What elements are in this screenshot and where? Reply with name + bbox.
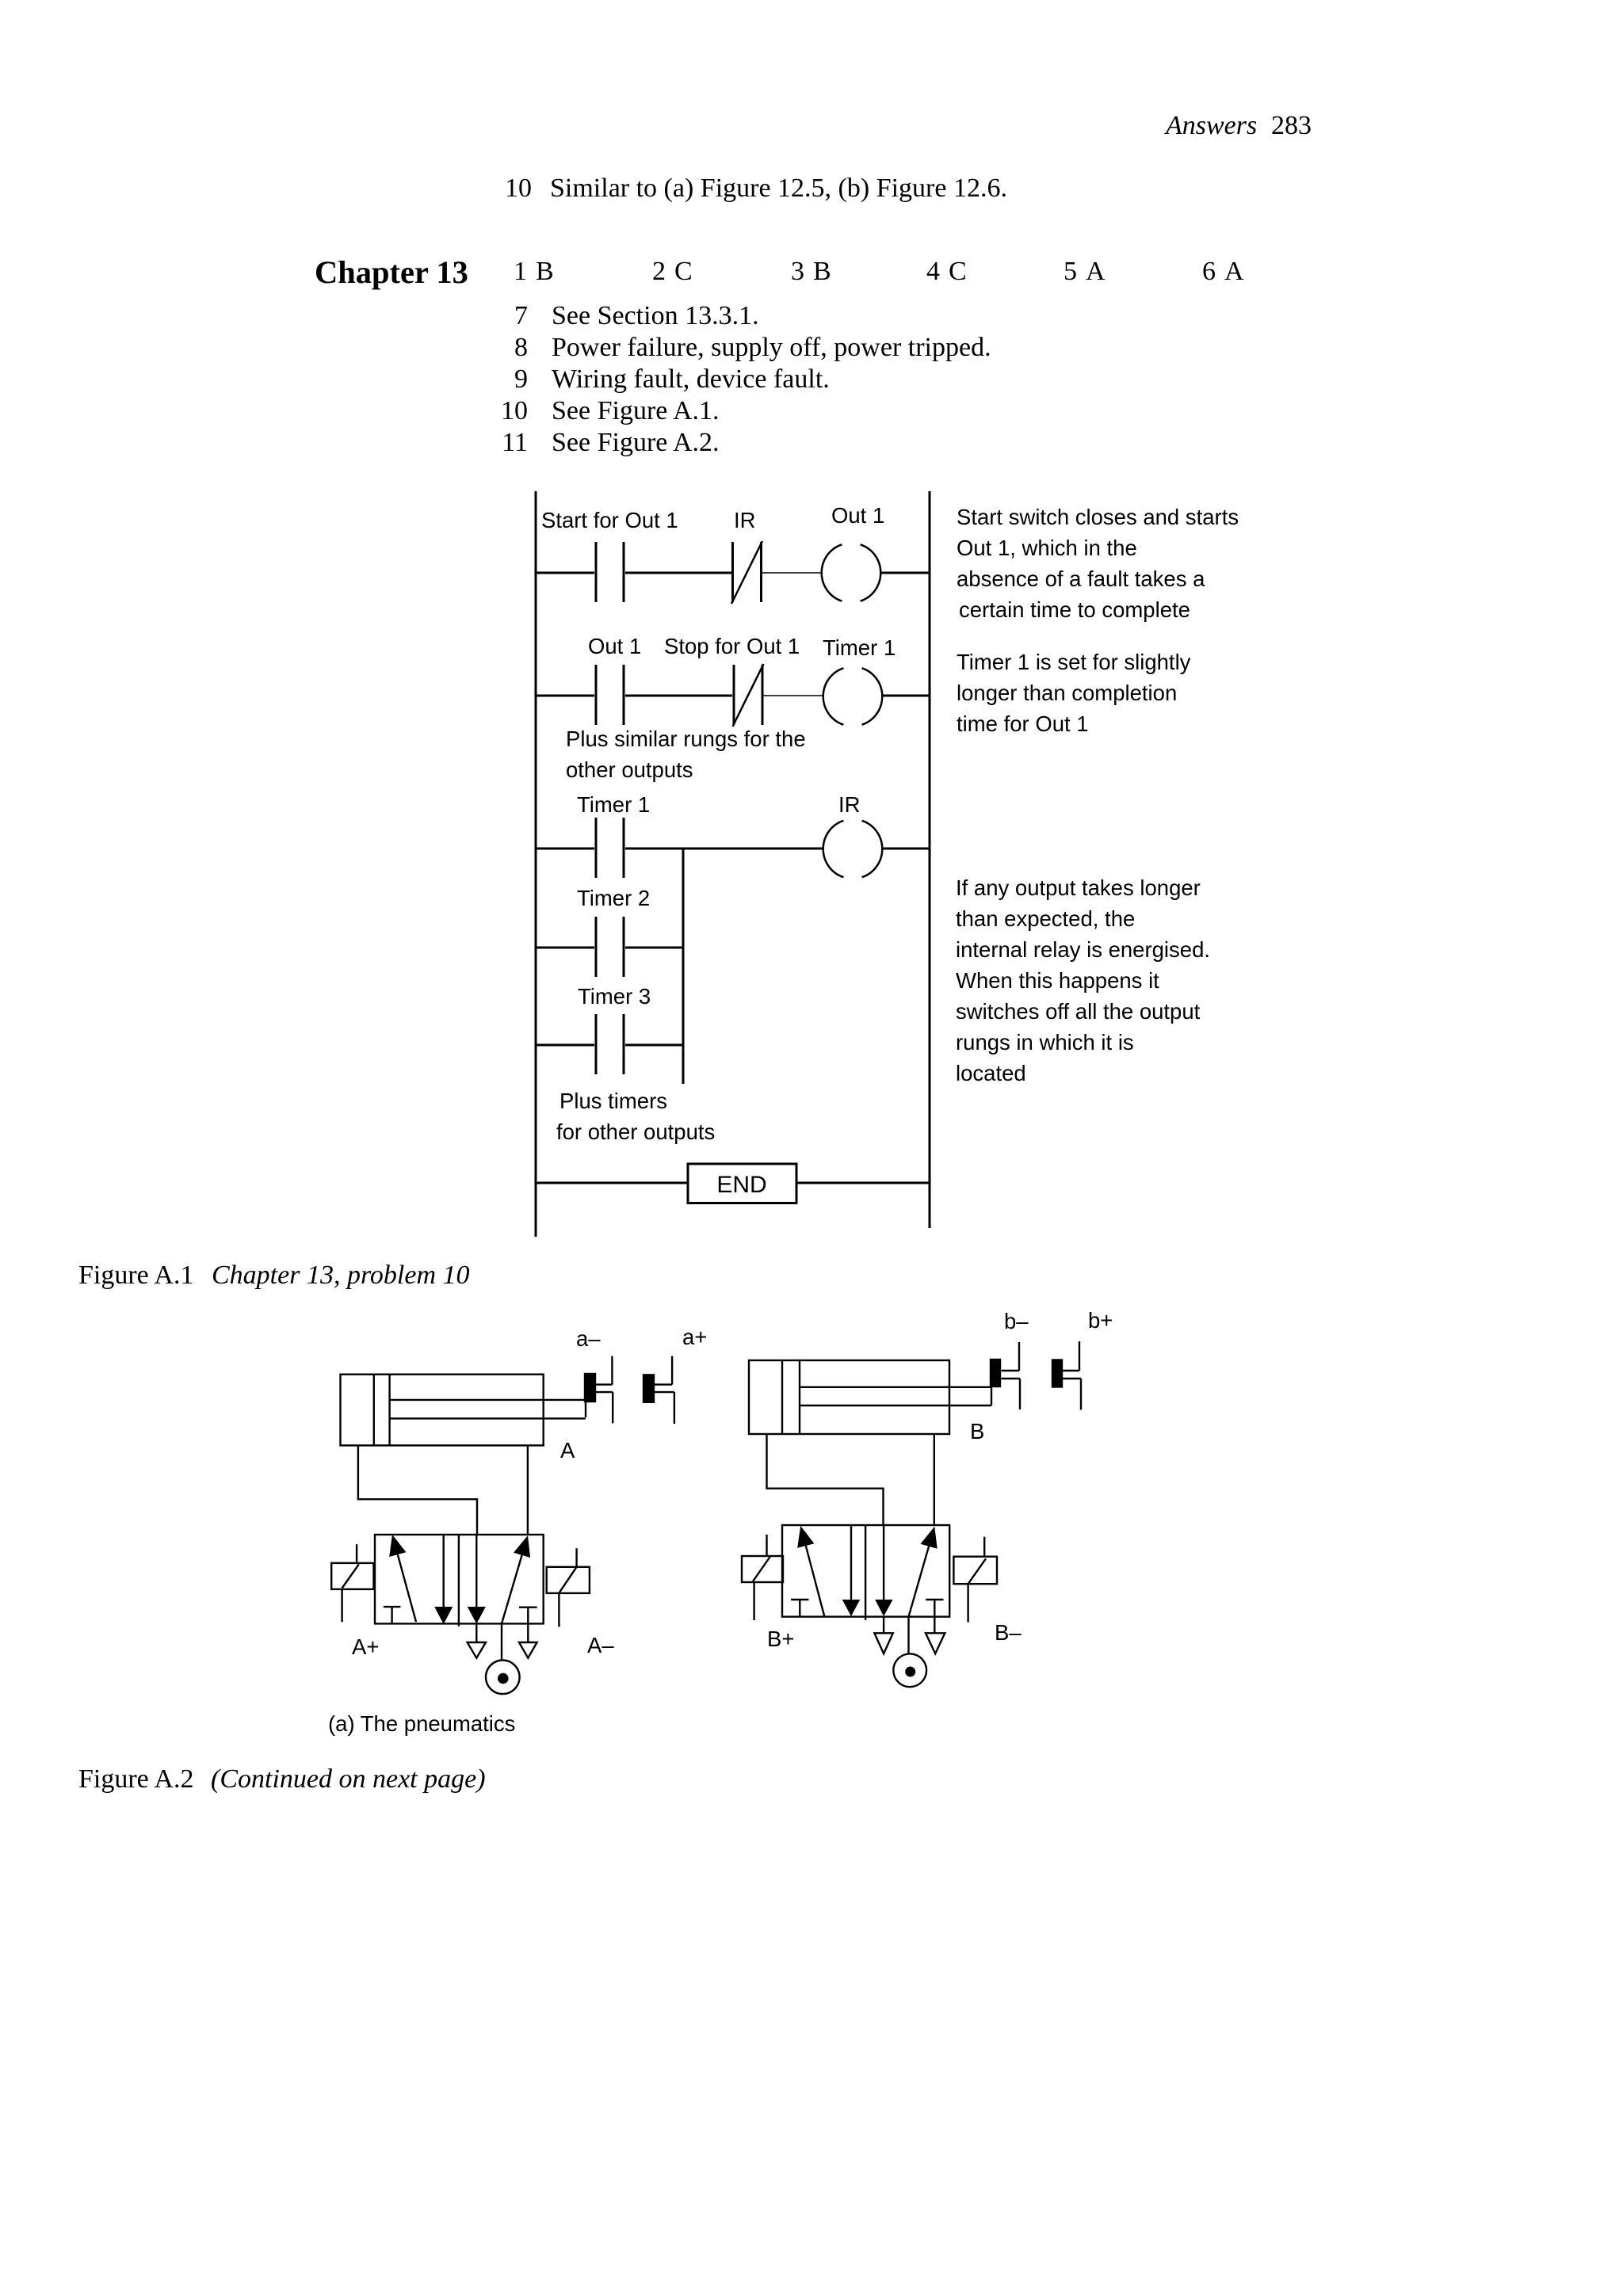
svg-text:time for Out 1: time for Out 1 xyxy=(957,711,1089,736)
rung 1 wire mid xyxy=(625,572,731,574)
contact Timer 2 xyxy=(596,917,624,977)
svg-text:Stop for Out 1: Stop for Out 1 xyxy=(664,634,800,658)
right rail xyxy=(929,491,931,1228)
valve B left diagonal arrow xyxy=(797,1526,824,1617)
svg-text:A: A xyxy=(560,1438,575,1463)
ladder labels xyxy=(541,503,896,1198)
svg-text:Start switch closes and starts: Start switch closes and starts xyxy=(957,505,1239,529)
svg-text:10: 10 xyxy=(501,396,528,425)
branch vertical xyxy=(682,849,685,1084)
svg-text:b+: b+ xyxy=(1088,1308,1113,1333)
contact Timer 1 xyxy=(596,818,624,878)
valve B flow line 2 with exhaust xyxy=(874,1525,892,1653)
wire cylinder A left port to valve xyxy=(358,1445,477,1535)
svg-text:(Continued on next page): (Continued on next page) xyxy=(211,1764,486,1794)
rung 5 wire left xyxy=(536,1044,594,1047)
svg-text:Power failure, supply off, pow: Power failure, supply off, power tripped… xyxy=(552,333,991,362)
cylinder A body xyxy=(341,1375,544,1446)
items 7-11 xyxy=(501,301,991,457)
rung 3 wire left xyxy=(536,848,594,850)
valve A body xyxy=(375,1535,544,1623)
svg-text:END: END xyxy=(716,1172,766,1198)
left rail xyxy=(535,491,537,1237)
svg-text:283: 283 xyxy=(1271,111,1312,140)
valve A flow line 2 with exhaust xyxy=(468,1535,486,1658)
svg-text:(a) The pneumatics: (a) The pneumatics xyxy=(328,1711,515,1736)
Figure A.2 caption xyxy=(78,1764,486,1794)
svg-text:Figure A.1: Figure A.1 xyxy=(78,1261,193,1290)
wire cylinder B left port to valve xyxy=(767,1434,884,1525)
side annotation block 1 xyxy=(957,505,1239,622)
svg-text:Timer 2: Timer 2 xyxy=(577,886,650,910)
svg-text:internal relay is energised.: internal relay is energised. xyxy=(956,937,1210,962)
svg-text:Plus similar rungs for the: Plus similar rungs for the xyxy=(566,727,806,751)
svg-text:B: B xyxy=(536,257,554,286)
valve B divider xyxy=(865,1525,866,1620)
valve A left diagonal arrow xyxy=(389,1535,416,1622)
svg-text:Plus timers: Plus timers xyxy=(559,1089,667,1113)
svg-text:Timer 1: Timer 1 xyxy=(823,635,896,660)
svg-text:Out 1, which in the: Out 1, which in the xyxy=(957,536,1137,560)
limit switch b+ xyxy=(1052,1341,1081,1410)
valve B left T port xyxy=(791,1600,808,1617)
svg-text:B: B xyxy=(970,1419,984,1444)
rung 1 thin wire xyxy=(762,572,823,574)
cylinder A rod xyxy=(390,1400,586,1419)
solenoid A- xyxy=(547,1548,590,1627)
svg-text:A+: A+ xyxy=(352,1634,379,1659)
limit switch a+ xyxy=(643,1356,674,1424)
svg-text:rungs in which it is: rungs in which it is xyxy=(956,1030,1134,1055)
END rung wire left xyxy=(536,1182,688,1184)
svg-text:longer than completion: longer than completion xyxy=(957,681,1177,705)
svg-text:7: 7 xyxy=(514,301,528,330)
valve B flow line 1 xyxy=(842,1525,860,1616)
svg-text:a+: a+ xyxy=(682,1325,707,1349)
rung 2 wire right xyxy=(882,695,930,697)
NC contact IR xyxy=(731,541,762,604)
valve A left T port xyxy=(384,1607,401,1623)
svg-text:IR: IR xyxy=(838,792,861,817)
valve B right diagonal arrow xyxy=(909,1527,938,1617)
limit switch a- xyxy=(585,1356,613,1424)
svg-text:A: A xyxy=(1224,257,1244,286)
svg-text:Out 1: Out 1 xyxy=(831,503,884,528)
valve B body xyxy=(782,1525,949,1617)
Figure A.1 caption xyxy=(78,1261,470,1290)
svg-text:When this happens it: When this happens it xyxy=(956,968,1159,993)
side annotation block 3 xyxy=(956,875,1210,1085)
solenoid B+ xyxy=(742,1535,783,1620)
svg-text:If any output takes longer: If any output takes longer xyxy=(956,875,1201,900)
cylinder B piston xyxy=(782,1360,800,1434)
NC contact Stop for Out 1 xyxy=(733,664,764,727)
svg-text:a–: a– xyxy=(576,1326,601,1351)
svg-text:See Figure A.1.: See Figure A.1. xyxy=(552,396,720,425)
rung 2 thin wire xyxy=(764,695,825,696)
svg-text:1: 1 xyxy=(514,257,527,286)
svg-text:B: B xyxy=(813,257,831,286)
valve A right T port with exhaust xyxy=(519,1608,537,1658)
svg-text:5: 5 xyxy=(1064,257,1077,286)
svg-text:certain time to complete: certain time to complete xyxy=(959,597,1190,622)
svg-text:9: 9 xyxy=(514,364,528,394)
rung 1 wire right xyxy=(880,572,930,574)
svg-text:Figure A.2: Figure A.2 xyxy=(78,1764,193,1794)
rung 4 wire right xyxy=(625,947,683,949)
svg-text:2: 2 xyxy=(652,257,666,286)
svg-text:C: C xyxy=(674,257,693,286)
limit switch b- xyxy=(991,1342,1020,1409)
svg-text:C: C xyxy=(949,257,967,286)
side annotation block 2 xyxy=(957,650,1191,736)
svg-text:located: located xyxy=(956,1061,1026,1085)
rung 2 wire left xyxy=(536,695,594,697)
rung 3 wire right xyxy=(882,848,930,850)
END box xyxy=(688,1164,796,1203)
solenoid A+ xyxy=(331,1544,373,1622)
valve B pressure source xyxy=(893,1617,926,1688)
rung 5 wire right xyxy=(625,1044,683,1047)
svg-text:A–: A– xyxy=(587,1633,614,1657)
valve A divider xyxy=(458,1535,460,1627)
svg-text:IR: IR xyxy=(734,508,756,532)
rung 3 wire mid xyxy=(625,848,823,850)
cylinder B body xyxy=(749,1360,949,1434)
svg-text:A: A xyxy=(1086,257,1106,286)
svg-text:Answers: Answers xyxy=(1164,111,1257,140)
svg-text:Start for Out 1: Start for Out 1 xyxy=(541,508,678,532)
valve A flow line 1 xyxy=(434,1535,453,1624)
coil IR xyxy=(823,821,883,877)
rung 2 wire mid xyxy=(625,695,732,697)
svg-text:4: 4 xyxy=(926,257,940,286)
svg-text:Similar to (a) Figure 12.5, (b: Similar to (a) Figure 12.5, (b) Figure 1… xyxy=(550,174,1007,203)
coil Timer 1 xyxy=(823,668,883,724)
valve A pressure source xyxy=(486,1623,520,1694)
contact Out 1 xyxy=(596,665,624,725)
svg-text:B–: B– xyxy=(995,1620,1022,1645)
rung 1 wire left xyxy=(536,572,594,574)
svg-text:3: 3 xyxy=(791,257,804,286)
svg-text:10: 10 xyxy=(505,174,532,203)
pneumatic labels xyxy=(352,1308,1113,1659)
svg-text:Chapter 13, problem 10: Chapter 13, problem 10 xyxy=(212,1261,470,1290)
svg-text:See Section 13.3.1.: See Section 13.3.1. xyxy=(552,301,759,330)
svg-text:See Figure A.2.: See Figure A.2. xyxy=(552,428,720,457)
svg-text:absence of a fault takes a: absence of a fault takes a xyxy=(957,566,1205,591)
svg-text:8: 8 xyxy=(514,333,528,362)
svg-text:other outputs: other outputs xyxy=(566,757,693,782)
wire cylinder B right port to valve xyxy=(934,1434,935,1525)
svg-text:11: 11 xyxy=(502,428,528,457)
rung 4 wire left xyxy=(536,947,594,949)
cylinder B rod xyxy=(800,1387,991,1405)
END rung wire right xyxy=(796,1182,930,1184)
svg-text:switches off all the output: switches off all the output xyxy=(956,999,1201,1024)
svg-text:Chapter 13: Chapter 13 xyxy=(315,254,468,290)
header: Answers 283 xyxy=(1164,111,1312,140)
svg-text:Timer 3: Timer 3 xyxy=(578,984,651,1009)
contact Start for Out 1 xyxy=(596,542,624,602)
svg-text:Timer 1: Timer 1 xyxy=(577,792,650,817)
svg-text:6: 6 xyxy=(1202,257,1216,286)
valve A right diagonal arrow xyxy=(502,1535,530,1623)
item 10 Similar xyxy=(505,174,1007,203)
svg-text:for other outputs: for other outputs xyxy=(556,1119,715,1144)
cylinder A piston xyxy=(374,1375,390,1446)
valve B right T port with exhaust xyxy=(926,1600,945,1653)
contact Timer 3 xyxy=(596,1014,624,1074)
answers row 1-6 xyxy=(514,257,1244,286)
svg-text:Wiring fault, device fault.: Wiring fault, device fault. xyxy=(552,364,830,394)
svg-text:B+: B+ xyxy=(767,1627,794,1651)
svg-text:than expected, the: than expected, the xyxy=(956,906,1135,931)
coil Out 1 xyxy=(822,544,881,601)
wire cylinder A right port to valve xyxy=(527,1445,529,1535)
svg-text:Out 1: Out 1 xyxy=(588,634,641,658)
solenoid B- xyxy=(953,1537,997,1623)
svg-text:Timer 1 is set for slightly: Timer 1 is set for slightly xyxy=(957,650,1191,674)
svg-text:b–: b– xyxy=(1004,1309,1029,1333)
